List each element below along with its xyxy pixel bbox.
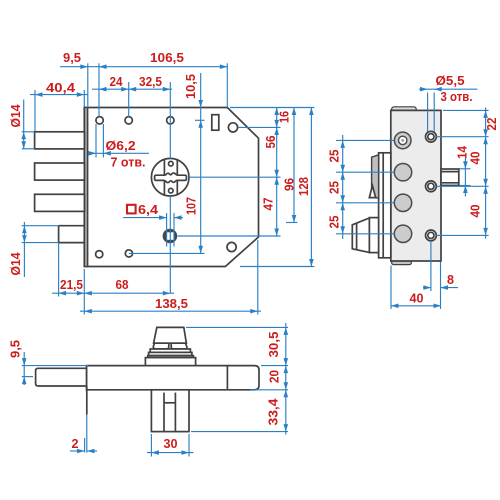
svg-text:10,5: 10,5 [183, 74, 198, 99]
svg-text:96: 96 [282, 178, 297, 191]
svg-text:32,5: 32,5 [139, 74, 162, 89]
svg-text:9,5: 9,5 [8, 340, 23, 358]
svg-text:138,5: 138,5 [155, 296, 188, 311]
svg-text:16: 16 [277, 111, 292, 123]
svg-text:Ø6,2: Ø6,2 [106, 138, 136, 153]
svg-text:8: 8 [447, 272, 454, 287]
svg-text:6,4: 6,4 [138, 202, 159, 217]
svg-text:7 отв.: 7 отв. [111, 155, 146, 170]
svg-text:22: 22 [484, 118, 499, 131]
svg-text:3 отв.: 3 отв. [441, 89, 473, 104]
svg-text:128: 128 [296, 177, 311, 196]
svg-text:25: 25 [327, 150, 342, 163]
svg-text:40: 40 [410, 291, 424, 306]
svg-text:Ø14: Ø14 [8, 252, 23, 276]
svg-text:47: 47 [261, 198, 276, 211]
svg-text:56: 56 [263, 136, 278, 149]
svg-text:33,4: 33,4 [266, 398, 281, 426]
svg-text:25: 25 [327, 216, 342, 229]
svg-text:40: 40 [468, 152, 483, 165]
svg-text:40,4: 40,4 [46, 80, 76, 95]
svg-text:30: 30 [164, 436, 178, 451]
svg-text:9,5: 9,5 [63, 50, 81, 65]
svg-text:Ø5,5: Ø5,5 [436, 73, 465, 88]
svg-text:107: 107 [184, 197, 199, 215]
svg-text:68: 68 [116, 277, 129, 292]
svg-text:106,5: 106,5 [150, 50, 184, 65]
svg-text:20: 20 [267, 370, 282, 383]
svg-text:24: 24 [110, 74, 124, 89]
svg-text:21,5: 21,5 [60, 277, 83, 292]
svg-text:30,5: 30,5 [266, 332, 281, 358]
svg-text:25: 25 [327, 181, 342, 194]
svg-text:2: 2 [72, 436, 79, 451]
svg-text:Ø14: Ø14 [8, 104, 23, 128]
svg-text:40: 40 [468, 205, 483, 218]
